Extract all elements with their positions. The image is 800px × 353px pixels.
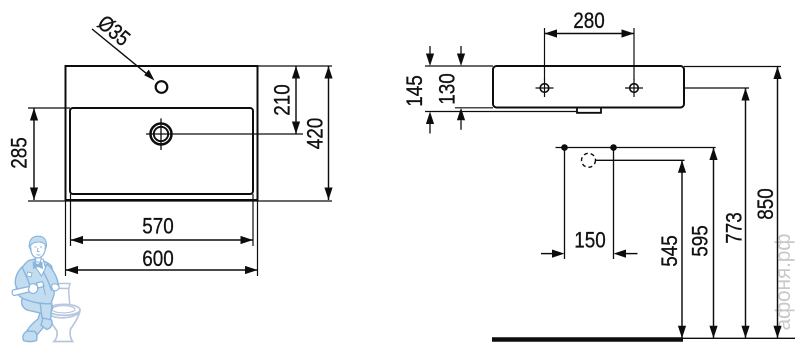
- svg-text:285: 285: [7, 137, 32, 169]
- svg-text:280: 280: [573, 8, 605, 33]
- svg-text:545: 545: [657, 235, 682, 267]
- svg-text:150: 150: [574, 228, 606, 253]
- svg-text:420: 420: [303, 118, 328, 150]
- svg-text:афоня.рф: афоня.рф: [772, 234, 795, 331]
- svg-text:850: 850: [753, 188, 778, 220]
- svg-text:210: 210: [270, 84, 295, 116]
- svg-text:600: 600: [142, 246, 174, 271]
- svg-text:773: 773: [722, 212, 747, 244]
- svg-text:130: 130: [435, 73, 460, 105]
- svg-text:595: 595: [688, 225, 713, 257]
- svg-text:145: 145: [402, 75, 427, 107]
- svg-text:570: 570: [142, 214, 174, 239]
